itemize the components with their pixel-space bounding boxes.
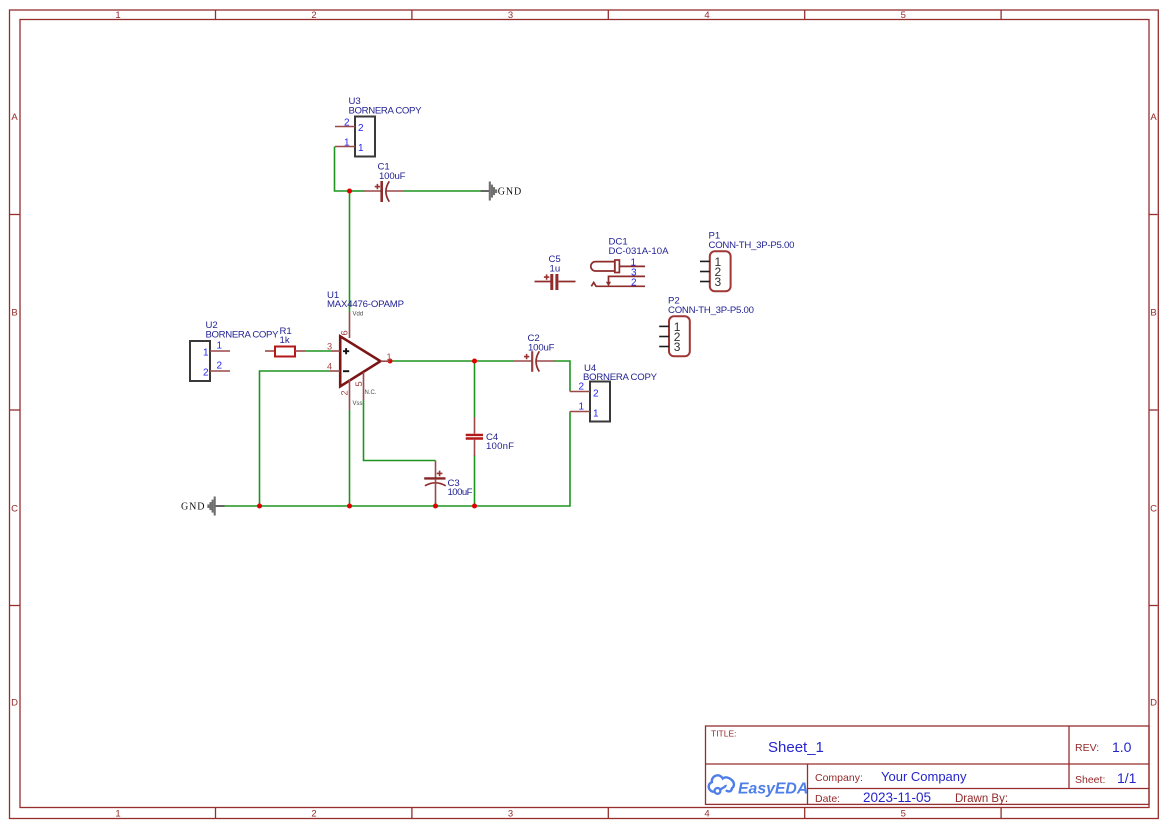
svg-text:2: 2 — [217, 361, 223, 372]
svg-text:B: B — [11, 308, 17, 319]
svg-text:EasyEDA: EasyEDA — [738, 781, 808, 798]
svg-text:A: A — [11, 112, 18, 123]
wire C3 bottom — [435, 502, 437, 506]
wire C4 top — [474, 361, 476, 417]
capacitor C4 100nF — [466, 417, 514, 456]
svg-text:5: 5 — [901, 10, 906, 21]
U4 body — [590, 382, 610, 422]
svg-text:100nF: 100nF — [486, 441, 514, 452]
U4 pin 2 — [570, 391, 590, 393]
svg-text:Sheet:: Sheet: — [1075, 774, 1105, 786]
connector DC1 DC-031A-10A — [591, 237, 669, 289]
capacitor C1 100uF — [364, 162, 406, 203]
svg-text:N.C.: N.C. — [365, 390, 377, 396]
svg-text:100uF: 100uF — [379, 171, 406, 182]
svg-text:Date:: Date: — [815, 793, 840, 805]
connector U3 — [335, 96, 422, 157]
frame bottom ticks — [216, 808, 1002, 819]
svg-text:1u: 1u — [550, 264, 561, 275]
svg-text:4: 4 — [704, 809, 709, 820]
svg-text:D: D — [1150, 698, 1157, 709]
op-amp U1 — [327, 290, 404, 410]
svg-text:2: 2 — [340, 390, 350, 395]
title block outline — [706, 726, 1150, 804]
P2 pin 1 — [659, 325, 669, 327]
ground right (net GND) — [481, 182, 523, 201]
svg-text:Sheet_1: Sheet_1 — [768, 739, 824, 756]
capacitor C3 100uF — [424, 461, 472, 503]
wire C4 bottom — [474, 455, 476, 506]
C1 plates and leads — [364, 190, 381, 192]
U1 pin 3 (+IN) — [331, 350, 340, 352]
C3 plates and leads — [435, 461, 437, 479]
P2 pin 3 — [659, 346, 669, 348]
svg-text:3: 3 — [508, 10, 513, 21]
wire feedback pin4 — [260, 371, 331, 506]
wire opamp output — [390, 360, 514, 362]
svg-text:2: 2 — [344, 118, 350, 129]
svg-text:DC-031A-10A: DC-031A-10A — [609, 246, 670, 257]
connector U4 — [570, 363, 658, 422]
svg-text:Vss: Vss — [353, 401, 363, 407]
svg-text:1: 1 — [344, 138, 350, 149]
svg-text:3: 3 — [327, 342, 332, 352]
svg-text:1: 1 — [115, 809, 120, 820]
svg-text:2: 2 — [593, 389, 599, 400]
connector U2 — [190, 320, 279, 381]
U1 pin 5 N.C. — [363, 372, 365, 400]
svg-text:2: 2 — [358, 123, 364, 134]
U1 pin 4 (-IN) — [330, 370, 340, 372]
svg-text:1k: 1k — [280, 335, 290, 346]
svg-text:TITLE:: TITLE: — [711, 729, 737, 739]
svg-text:Vdd: Vdd — [353, 312, 364, 318]
wire U3 pin1 to C1 node — [335, 147, 350, 192]
ground left (net GND) — [181, 497, 225, 516]
junction dot opamp output — [388, 359, 393, 364]
svg-text:Company:: Company: — [815, 772, 863, 784]
U1 pin 2 Vss — [349, 379, 351, 410]
frame side ticks — [10, 215, 1158, 606]
svg-text:4: 4 — [704, 10, 709, 21]
DC1 pin 1 — [619, 265, 645, 267]
capacitor C2 100uF — [514, 333, 555, 372]
P2 body — [669, 316, 690, 356]
svg-text:1: 1 — [387, 352, 392, 362]
C5 plates and leads — [535, 281, 551, 283]
svg-text:1: 1 — [579, 402, 585, 413]
svg-text:1: 1 — [358, 143, 364, 154]
svg-text:Your Company: Your Company — [881, 769, 967, 784]
svg-text:4: 4 — [327, 362, 332, 372]
svg-text:2: 2 — [311, 10, 316, 21]
DC1 barrel body — [591, 262, 615, 271]
U3 body — [355, 117, 375, 157]
wire U4 pin1 down to rail — [225, 412, 571, 507]
svg-text:2: 2 — [579, 382, 585, 393]
svg-text:6: 6 — [340, 330, 350, 335]
svg-text:1.0: 1.0 — [1112, 739, 1132, 755]
junction dot rail Vss — [347, 504, 352, 509]
R1 body and leads — [265, 350, 275, 352]
svg-text:100uF: 100uF — [448, 487, 473, 498]
svg-text:B: B — [1150, 308, 1156, 319]
junction dot rail C4 — [472, 504, 477, 509]
P1 pin 2 — [700, 271, 710, 273]
U1 pin 6 Vdd — [349, 312, 351, 338]
U1 triangle body — [340, 336, 380, 386]
svg-text:REV:: REV: — [1075, 742, 1099, 754]
P2 pin 2 — [659, 336, 669, 338]
svg-text:1: 1 — [203, 348, 209, 359]
svg-text:BORNERA COPY: BORNERA COPY — [349, 106, 423, 117]
svg-text:MAX4476-OPAMP: MAX4476-OPAMP — [327, 299, 404, 310]
svg-text:3: 3 — [715, 275, 722, 289]
junction dot rail feedback — [257, 504, 262, 509]
svg-text:2: 2 — [631, 278, 637, 289]
svg-text:C: C — [11, 504, 18, 515]
DC1 pin 2 with switch chevron — [591, 283, 645, 287]
wire NC to C3 — [364, 400, 436, 461]
U1 pin 1 OUT — [380, 360, 390, 362]
svg-text:3: 3 — [508, 809, 513, 820]
frame column numbers bottom — [115, 809, 906, 820]
C2 plates and leads — [514, 360, 532, 362]
P1 pin 3 — [700, 281, 710, 283]
svg-text:2023-11-05: 2023-11-05 — [863, 790, 931, 805]
U3 pin 1 — [335, 146, 355, 148]
svg-text:CONN-TH_3P-P5.00: CONN-TH_3P-P5.00 — [668, 305, 754, 316]
svg-text:1: 1 — [217, 341, 223, 352]
wire C1 right to GND — [404, 190, 481, 192]
DC1 tip bar — [615, 260, 620, 273]
svg-text:5: 5 — [354, 381, 364, 386]
svg-text:D: D — [11, 698, 18, 709]
U2 pin 2 — [210, 370, 230, 372]
P1 pin 1 — [700, 260, 710, 262]
P1 body — [710, 251, 731, 291]
svg-text:GND: GND — [181, 502, 205, 513]
U3 pin 2 — [335, 126, 355, 128]
wire R1 to opamp pin3 — [305, 350, 331, 352]
svg-text:GND: GND — [498, 187, 522, 198]
svg-text:1: 1 — [115, 10, 120, 21]
svg-text:5: 5 — [901, 809, 906, 820]
svg-text:1/1: 1/1 — [1117, 770, 1137, 786]
svg-text:C: C — [1150, 504, 1157, 515]
C4 plates and leads — [474, 417, 476, 434]
capacitor C5 1u — [535, 254, 576, 290]
EasyEDA logo — [709, 775, 809, 797]
U2 pin 1 — [210, 350, 230, 352]
svg-text:2: 2 — [203, 368, 209, 379]
wire C1 left — [350, 190, 365, 192]
frame top ticks — [216, 10, 1002, 20]
resistor R1 1k — [265, 326, 305, 357]
frame column numbers top — [115, 10, 906, 21]
wire Vdd riser — [349, 191, 351, 312]
svg-text:1: 1 — [593, 409, 599, 420]
U2 body — [190, 341, 210, 381]
connector P1 CONN-TH_3P-P5.00 — [700, 231, 795, 292]
svg-text:3: 3 — [674, 340, 681, 354]
svg-text:BORNERA COPY: BORNERA COPY — [206, 330, 280, 341]
wire Vss down — [349, 410, 351, 506]
U4 pin 1 — [570, 411, 590, 413]
junction dot C1 node — [347, 189, 352, 194]
connector P2 CONN-TH_3P-P5.00 — [659, 296, 754, 357]
svg-text:CONN-TH_3P-P5.00: CONN-TH_3P-P5.00 — [709, 240, 795, 251]
frame row letters — [11, 112, 1157, 709]
svg-text:A: A — [1150, 112, 1157, 123]
svg-text:Drawn By:: Drawn By: — [955, 793, 1008, 805]
junction dot C4 top — [472, 359, 477, 364]
junction dot rail C3 — [433, 504, 438, 509]
DC1 pin 3 — [609, 276, 646, 284]
svg-text:2: 2 — [311, 809, 316, 820]
